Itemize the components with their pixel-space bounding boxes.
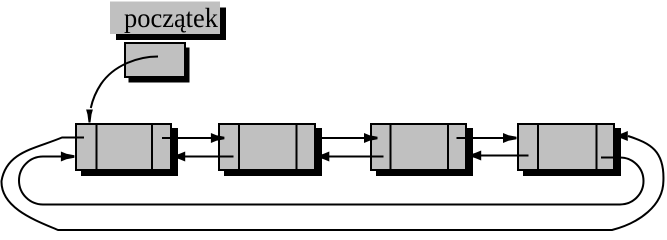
label poczatek shadow	[116, 8, 226, 41]
wrap outer arrowhead into node4	[618, 131, 628, 141]
pointer box shadow	[129, 48, 190, 83]
next arrow node1 to node2	[162, 137, 213, 139]
pointer box	[125, 43, 185, 77]
arrow pointer to node 1	[91, 57, 158, 109]
node 3 shadow	[376, 128, 473, 176]
wrap outer loop node1 prev to node4	[1, 136, 663, 230]
node 4 box	[518, 124, 614, 170]
wrap inner loop node4 next to node1	[19, 157, 644, 205]
node 1 divider left	[96, 124, 98, 170]
node 2 divider left	[238, 124, 240, 170]
svg-text:początek: początek	[124, 3, 218, 33]
next arrow node2 to node3	[320, 137, 366, 139]
prev arrow node3 to node2	[328, 156, 384, 158]
node 3 divider left	[390, 124, 392, 170]
next arrow node3 to node4	[457, 137, 506, 139]
node 4 divider right	[596, 124, 598, 170]
node 1 box	[76, 124, 171, 170]
prev arrow node2 to node1	[184, 156, 234, 158]
node 1 shadow	[81, 128, 178, 176]
node 2 shadow	[224, 128, 322, 176]
node 2 box	[219, 124, 315, 170]
node 4 shadow	[523, 128, 621, 176]
label poczatek box	[110, 2, 220, 35]
node 3 divider right	[447, 124, 449, 170]
node 1 divider right	[151, 124, 153, 170]
prev arrow node4 to node3	[480, 155, 529, 157]
wrap inner arrowhead into node1	[61, 152, 75, 162]
node 3 box	[371, 124, 466, 170]
node 2 divider right	[296, 124, 298, 170]
node 4 divider left	[537, 124, 539, 170]
